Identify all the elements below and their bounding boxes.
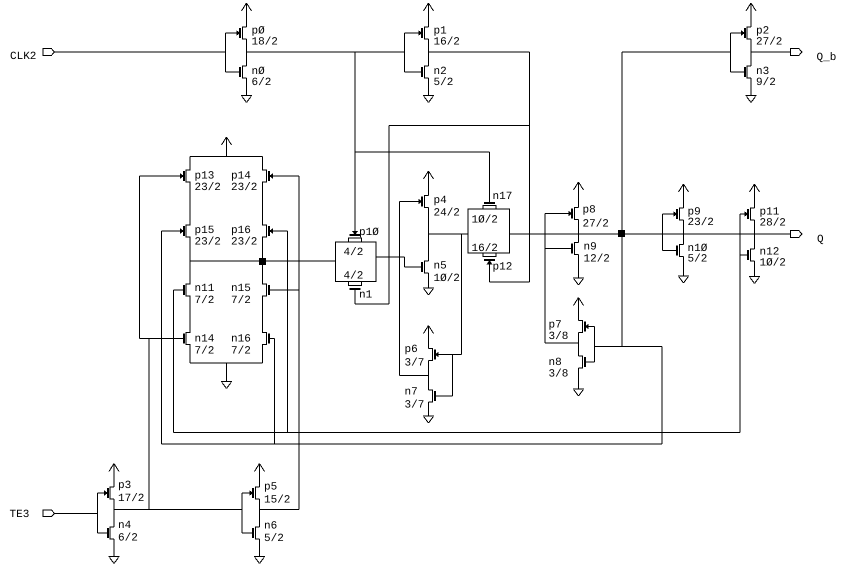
wire node W up to p2/n3 gate bus [622,52,731,347]
svg-text:15/2: 15/2 [264,495,290,507]
transistor n17 10/2 NMOS top of TG2 [472,191,513,227]
wire te_b riser down to TE inverter output [148,339,150,510]
svg-text:16/2: 16/2 [472,243,498,255]
wire rail p5-n6 [259,499,261,527]
ground below n4 [109,539,120,564]
wire te_b p3/n4 output to p5/n6 gate bus [114,508,242,510]
transistor n0 6/2 NMOS [240,66,271,89]
transistor p1 16/2 PMOS [419,26,460,49]
transistor n6 5/2 NMOS [253,521,284,546]
ground below n3 [746,78,757,103]
svg-text:27/2: 27/2 [583,219,609,231]
svg-text:6/2: 6/2 [252,77,272,89]
ground below n7 [423,402,434,423]
transistor n4 6/2 NMOS [108,520,138,545]
vdd supply arrow above p7 [574,298,584,321]
wire p13 gate to te_b riser [140,176,181,339]
svg-text:n17: n17 [493,191,513,203]
wire CLK2 to p0/n0 gate bus [55,51,226,53]
transistor p15 23/2 PMOS gate bar [180,225,221,249]
wire keeper p7/n8 input from node W [595,347,663,445]
svg-text:TE3: TE3 [10,509,30,521]
vdd supply arrow above p5 [255,464,265,488]
svg-text:p7: p7 [549,320,562,332]
transistor n8 3/8 NMOS mirrored [585,327,595,363]
ground below mux block [221,363,232,389]
wire n14 gate [140,338,185,340]
transistor n2 5/2 NMOS [422,66,453,89]
svg-text:p3: p3 [118,480,131,492]
wire clk_bb branch to n1 gate riser [389,125,530,304]
svg-text:p8: p8 [583,205,596,217]
svg-text:p1Ø: p1Ø [359,227,379,239]
transistor n5 10/2 NMOS [405,266,423,268]
svg-text:23/2: 23/2 [231,182,257,194]
vdd supply arrow above p1 [424,3,434,27]
vdd supply arrow above p3 [109,464,119,488]
svg-text:9/2: 9/2 [756,77,776,89]
svg-text:4/2: 4/2 [344,271,364,283]
svg-text:p14: p14 [231,171,251,183]
junction node dot on mux output [259,258,266,265]
svg-text:23/2: 23/2 [231,237,257,249]
svg-text:3/8: 3/8 [549,369,569,381]
ground below n0 [241,78,252,103]
svg-text:p16: p16 [231,225,251,237]
wire keeper p6/n7 output to node X [400,375,429,377]
svg-text:1Ø/2: 1Ø/2 [760,258,786,270]
wire rail p9-n10 [683,220,685,245]
transistor n11 7/2 NMOS gate bar [184,283,215,307]
wire n15 gate to te_bb riser [269,289,300,291]
wire TG2 output to node W line [510,233,791,235]
wire node Y riser to keeper p6/n7 input [461,234,463,355]
vdd supply arrow above p6 [424,326,434,349]
transistor p7 3/8 PMOS mirrored [588,326,595,328]
transistor p9 23/2 PMOS [674,207,714,230]
ground below n8 [573,368,584,396]
node Z gate bus of p8/n9 [544,214,546,344]
transistor n9 12/2 NMOS [545,248,573,250]
wire n1 gate riser [355,289,389,304]
node X gate bus of p4/n5 and keeper output riser [399,202,401,376]
transistor p3 17/2 PMOS [104,480,144,505]
input pin CLK2 [10,49,55,63]
transistor p0 18/2 PMOS [237,26,278,49]
svg-text:12/2: 12/2 [584,254,610,266]
input pin TE3 [10,509,55,521]
wire n16 gate to node W riser [269,339,275,445]
svg-text:24/2: 24/2 [434,208,460,220]
transistor n7 3/7 NMOS mirrored [435,355,453,397]
wire p14 gate to te_bb riser [272,175,299,177]
svg-text:7/2: 7/2 [195,346,215,358]
svg-text:5/2: 5/2 [264,533,284,545]
wire rail p3-n4 [113,499,115,527]
wire rail p4-n5 [428,208,430,262]
svg-text:p5: p5 [264,482,277,494]
transistor n16 7/2 NMOS gate bar [231,334,269,358]
svg-text:n4: n4 [118,520,132,532]
wire rail p11-n12 [754,220,756,249]
wire TG1 output node X to p4/n5 gate [376,257,405,267]
node gate bus of inverter p5/n6 [242,493,254,533]
svg-text:18/2: 18/2 [252,37,278,49]
transistor p4 24/2 PMOS [400,201,420,203]
transistor n15 7/2 NMOS gate bar [231,283,269,307]
ground below n2 [423,78,434,103]
transistor n1 4/2 NMOS bottom of TG1 [344,271,373,302]
wire n11 gate to node QI riser [174,290,185,433]
node QI gate bus of p11/n12 and feedback riser [740,214,749,433]
wire rail p2-n3 [750,39,752,66]
ground below n5 [423,273,434,295]
transistor p12 16/2 PMOS bottom of TG2 [472,243,513,274]
vdd supply arrow above p8 [574,182,584,208]
svg-text:n9: n9 [584,242,597,254]
wire rail p7-n8 [578,333,580,357]
svg-text:28/2: 28/2 [760,218,786,230]
wire p2/n3 output to Q_b pin [751,51,791,53]
svg-text:3/8: 3/8 [549,331,569,343]
wire rail p1-n2 [428,39,430,66]
svg-text:5/2: 5/2 [434,77,454,89]
ground below n10 [678,257,689,284]
wire rail p0-n0 [246,39,248,66]
wire mux block output node to transmission gate p10/n1 [190,260,336,262]
wire clk_bb to p12 gate [490,264,530,282]
wire clk_b branch down to p10 gate [354,52,356,232]
wire te_bb p5/n6 output to riser [260,508,300,510]
svg-text:23/2: 23/2 [195,182,221,194]
svg-text:Q: Q [817,234,824,246]
svg-text:n5: n5 [434,261,447,273]
transistor p10 4/2 PMOS top of TG1 [344,227,380,259]
ground below n12 [749,261,760,284]
svg-text:n14: n14 [195,334,215,346]
transmission gate p10/n1 box [336,242,377,282]
node gate bus of inverter p3/n4 [98,493,109,533]
output pin Q [791,231,825,246]
wire node W feedback line h2 [162,443,663,445]
wire p15 gate to node W riser [162,231,181,444]
transistor n3 9/2 NMOS [745,66,776,89]
svg-text:Q_b: Q_b [817,52,837,64]
vdd supply arrow above mux block [222,137,232,157]
svg-text:n1: n1 [359,290,373,302]
svg-text:3/7: 3/7 [405,358,425,370]
transistor p11 28/2 PMOS [745,207,786,230]
wire clk_bb p1/n2 output going right and down [429,52,530,282]
transistor p6 3/7 PMOS mirrored [438,354,462,356]
node gate bus of p9/n10 [663,214,678,251]
svg-text:7/2: 7/2 [195,295,215,307]
svg-text:4/2: 4/2 [344,247,364,259]
output pin Q_b [791,49,837,64]
svg-text:n16: n16 [231,334,251,346]
svg-text:CLK2: CLK2 [10,51,36,63]
junction node W dot [618,230,625,237]
svg-text:7/2: 7/2 [231,346,251,358]
svg-text:p12: p12 [493,262,513,274]
svg-text:5/2: 5/2 [688,254,708,266]
svg-text:p6: p6 [405,344,418,356]
svg-text:23/2: 23/2 [688,217,714,229]
vdd supply arrow above p11 [750,184,760,208]
ground below n9 [573,255,584,286]
wire QI feedback line h1 [174,432,741,434]
left mux block right rail [263,157,267,364]
svg-text:n11: n11 [195,283,215,295]
wire clk_b node p0/n0 output to p1/n2 gate bus [247,51,405,53]
svg-text:7/2: 7/2 [231,295,251,307]
vdd supply arrow above p4 [424,171,434,196]
node gate bus of inverter p1/n2 [405,33,423,72]
transistor n10 5/2 NMOS [677,243,708,266]
transistor n14 7/2 NMOS gate bar [184,334,215,358]
svg-text:n7: n7 [405,387,418,399]
svg-text:1Ø/2: 1Ø/2 [434,273,460,285]
vdd supply arrow above p2 [746,3,756,27]
wire node Y p4/n5 output to TG2 [429,233,469,235]
svg-text:23/2: 23/2 [195,237,221,249]
vdd supply arrow above p9 [679,184,689,208]
svg-text:27/2: 27/2 [756,37,782,49]
svg-text:6/2: 6/2 [118,533,138,545]
wire p16 gate to QI feedback riser [272,231,288,433]
transistor n12 10/2 NMOS [748,247,786,270]
svg-text:3/7: 3/7 [405,400,425,412]
left mux block top vdd bar [190,156,263,158]
vdd supply arrow above p0 [242,3,252,27]
svg-text:n15: n15 [231,283,251,295]
svg-text:n8: n8 [549,357,562,369]
transistor p2 27/2 PMOS [741,26,782,49]
svg-text:16/2: 16/2 [434,37,460,49]
wire TE3 to p3/n4 gate bus [55,512,98,514]
node clk gate bus of inverter p0/n0 [226,33,241,72]
wire rail p6-n7 [428,361,430,391]
transistor p14 23/2 PMOS gate bar [231,171,273,195]
transistor p16 23/2 PMOS gate bar [231,225,273,249]
left mux block left rail [186,157,190,364]
node gate bus of inverter p2/n3 [731,33,746,72]
svg-text:1Ø/2: 1Ø/2 [472,215,498,227]
transistor p13 23/2 PMOS gate bar [180,171,221,195]
transistor p8 27/2 PMOS [545,213,569,215]
ground below n6 [254,539,265,564]
wire keeper p7/n8 output to node Z [545,342,579,344]
wire rail p8-n9 [578,220,580,243]
svg-text:n6: n6 [264,521,277,533]
svg-text:17/2: 17/2 [118,493,144,505]
left mux block bottom bar [190,362,263,364]
transistor p5 15/2 PMOS [250,482,291,507]
transmission gate n17/p12 box [468,209,510,253]
wire clk_b branch to n17 gate [355,152,490,204]
svg-text:p4: p4 [434,195,448,207]
svg-text:p15: p15 [195,225,215,237]
wire te_bb riser [298,176,300,509]
svg-text:p13: p13 [195,171,215,183]
